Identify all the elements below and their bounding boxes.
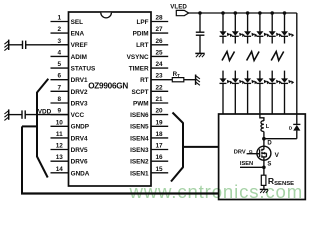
node continuation break mark 3 <box>271 52 284 61</box>
svg-text:ISEN6: ISEN6 <box>130 112 149 119</box>
svg-text:4: 4 <box>58 49 62 56</box>
op-amp-style IC U1 OZ9906GN body <box>69 12 152 186</box>
svg-text:25: 25 <box>155 49 163 56</box>
node continuation break mark 2 <box>247 52 260 61</box>
wire DRV bus left vertical <box>21 126 23 193</box>
pin 11 DRV4 <box>51 131 88 142</box>
wire VREF net to C1 <box>9 44 23 46</box>
node junction LED string 2 tap <box>234 11 238 15</box>
svg-text:23: 23 <box>155 73 163 80</box>
wire LED string 3 mid lower <box>247 71 249 79</box>
transistor V (power MOSFET) <box>249 141 280 168</box>
svg-text:ISEN1: ISEN1 <box>130 170 149 177</box>
wire LED string 5 mid lower <box>271 71 273 79</box>
resistor RT <box>172 71 184 82</box>
svg-text:24: 24 <box>155 61 163 68</box>
wire LED string 5 to block <box>271 83 273 114</box>
LED D3b <box>244 78 257 84</box>
wire LED string 1 mid lower <box>222 71 224 79</box>
LED D1a <box>220 31 233 37</box>
pin 14 GNDA <box>51 166 90 178</box>
wire LED string 4 mid lower <box>259 71 261 79</box>
svg-text:18: 18 <box>155 131 163 138</box>
wire LED string 3 mid upper <box>247 36 249 43</box>
svg-text:VDD: VDD <box>38 108 52 115</box>
pin 9 VCC <box>51 108 85 120</box>
wire LED string 5 mid upper <box>271 36 273 43</box>
LED D6b <box>281 78 294 84</box>
svg-text:DRV6: DRV6 <box>71 159 88 166</box>
resistor RSENSE <box>261 175 294 187</box>
pin 23 RT <box>140 73 168 85</box>
LED D4a <box>256 31 269 37</box>
svg-text:OZ9906GN: OZ9906GN <box>88 82 128 91</box>
svg-text:11: 11 <box>56 131 63 138</box>
wire DRV to gate <box>247 153 260 155</box>
wire ISEN bus entry diagonal top <box>173 113 184 124</box>
wire LED string 4 to block <box>259 83 261 114</box>
svg-text:5: 5 <box>58 61 62 68</box>
svg-text:9: 9 <box>58 108 62 115</box>
svg-text:7: 7 <box>58 84 62 91</box>
svg-text:LRT: LRT <box>136 42 149 49</box>
wire DRV bus entry diagonal top <box>37 79 48 93</box>
wire LED string 2 mid lower <box>234 71 236 79</box>
svg-text:ISEN: ISEN <box>240 161 253 167</box>
node junction LED string 6 tap <box>283 11 287 15</box>
svg-text:16: 16 <box>155 154 163 161</box>
svg-text:VCC: VCC <box>71 112 85 119</box>
svg-text:10: 10 <box>56 119 64 126</box>
pin 22 SCPT <box>132 84 169 96</box>
svg-text:20: 20 <box>155 108 163 115</box>
pin 21 PWM <box>133 96 168 107</box>
LED D2a <box>232 31 245 37</box>
wire C2 to pin 9 VCC <box>25 114 68 116</box>
capacitor C3 <box>196 32 205 35</box>
svg-text:D: D <box>267 141 272 147</box>
pin 15 ISEN1 <box>130 166 168 178</box>
svg-text:28: 28 <box>155 15 163 22</box>
wire LED string 1 mid upper <box>222 36 224 43</box>
pin 17 ISEN3 <box>130 143 168 155</box>
wire LED string 1 to block <box>222 83 224 114</box>
svg-text:21: 21 <box>155 96 163 103</box>
pin 16 ISEN2 <box>130 154 168 165</box>
svg-text:VREF: VREF <box>71 42 88 49</box>
svg-text:27: 27 <box>155 26 163 33</box>
wire ISEN bus exit diagonal bottom <box>171 167 183 181</box>
svg-text:ISEN3: ISEN3 <box>130 147 149 154</box>
svg-text:22: 22 <box>155 84 163 91</box>
svg-text:17: 17 <box>155 143 163 150</box>
pin 5 STATUS <box>51 61 96 72</box>
node junction LED string 4 tap <box>258 11 262 15</box>
ground at C2 <box>4 109 8 120</box>
svg-text:D: D <box>289 126 293 132</box>
pin 28 LPF <box>137 15 169 26</box>
svg-text:ENA: ENA <box>71 31 85 38</box>
wire pin 23 to RT <box>168 79 172 81</box>
LED string 5 upper wire <box>271 13 273 31</box>
capacitor C2 <box>22 110 25 118</box>
wire RSENSE to ground <box>263 185 265 189</box>
wire source to RSENSE <box>263 160 265 175</box>
pin 8 DRV3 <box>51 96 88 107</box>
svg-text:RT: RT <box>173 71 180 78</box>
wire DRV bus bottom run to block <box>21 192 219 194</box>
pin 7 DRV2 <box>51 84 88 96</box>
pin 10 GNDP <box>51 119 90 130</box>
svg-text:26: 26 <box>155 38 163 45</box>
svg-text:LPF: LPF <box>137 19 149 26</box>
LED D5a <box>269 31 282 37</box>
LED string 3 upper wire <box>247 13 249 31</box>
svg-text:DRV: DRV <box>234 150 246 156</box>
inductor L <box>261 121 270 132</box>
pin 13 DRV6 <box>51 154 88 165</box>
node junction LED string 1 tap <box>221 11 225 15</box>
pin 3 VREF <box>51 38 88 49</box>
pin 6 DRV1 <box>51 73 88 85</box>
svg-text:RT: RT <box>140 77 149 84</box>
wire ISEN bus to block <box>183 146 219 148</box>
wire L to switch node <box>263 132 265 147</box>
wire C3 to ground <box>199 35 201 53</box>
svg-text:6: 6 <box>58 73 62 80</box>
ground at C3 <box>195 53 204 57</box>
pin 25 VSYNC <box>127 49 169 61</box>
svg-text:DRV1: DRV1 <box>71 77 88 84</box>
svg-text:VLED: VLED <box>170 3 187 10</box>
svg-text:ISEN5: ISEN5 <box>130 124 149 131</box>
pin 27 PDIM <box>133 26 169 37</box>
svg-text:ISEN2: ISEN2 <box>130 159 149 166</box>
pin 19 ISEN5 <box>130 119 168 130</box>
LED string 6 upper wire <box>284 13 286 31</box>
wire LED string 2 mid upper <box>234 36 236 43</box>
svg-text:14: 14 <box>56 166 64 173</box>
wire LED string 4 mid upper <box>259 36 261 43</box>
wire DRV bus vertical <box>36 92 38 157</box>
wire VLED rail drop to diode D <box>296 13 298 124</box>
capacitor C1 <box>23 41 26 49</box>
pin 26 LRT <box>136 38 168 49</box>
wire RT to ground <box>184 79 196 81</box>
ground at RSENSE <box>260 189 268 193</box>
wire C1 to pin 3 <box>26 44 69 46</box>
LED D2b <box>232 78 245 84</box>
pin 1 SEL <box>51 15 84 26</box>
svg-text:L: L <box>266 124 270 130</box>
node junction LED string 3 tap <box>246 11 250 15</box>
svg-text:V: V <box>275 152 280 159</box>
svg-text:DRV2: DRV2 <box>71 89 88 96</box>
svg-text:TIMER: TIMER <box>129 66 149 73</box>
wire ISEN bus vertical <box>182 123 184 168</box>
LED D1b <box>220 78 233 84</box>
LED string 2 upper wire <box>234 13 236 31</box>
wire LED string 2 to block <box>234 83 236 114</box>
svg-text:STATUS: STATUS <box>71 66 96 73</box>
LED string 4 upper wire <box>259 13 261 31</box>
LED D4b <box>256 78 269 84</box>
svg-text:ADIM: ADIM <box>71 54 87 61</box>
svg-text:12: 12 <box>56 143 64 150</box>
svg-text:PDIM: PDIM <box>133 31 149 38</box>
node source junction <box>262 166 266 170</box>
svg-text:2: 2 <box>58 26 62 33</box>
svg-text:SCPT: SCPT <box>132 89 149 96</box>
wire LED string 6 mid upper <box>284 36 286 43</box>
pin 12 DRV5 <box>51 143 88 155</box>
svg-text:VSYNC: VSYNC <box>127 54 149 61</box>
pin 20 ISEN6 <box>130 108 168 120</box>
LED D5b <box>269 78 282 84</box>
svg-text:DRV3: DRV3 <box>71 100 88 107</box>
svg-text:PWM: PWM <box>133 100 149 107</box>
node junction LED string 5 tap <box>270 11 274 15</box>
svg-text:15: 15 <box>155 166 163 173</box>
svg-text:3: 3 <box>58 38 62 45</box>
svg-text:ISEN4: ISEN4 <box>130 135 149 142</box>
svg-text:13: 13 <box>56 154 64 161</box>
pin 2 ENA <box>51 26 85 37</box>
svg-text:SEL: SEL <box>71 19 84 26</box>
svg-text:DRV4: DRV4 <box>71 135 88 142</box>
node junction C3 tap <box>198 11 202 15</box>
svg-text:19: 19 <box>155 119 163 126</box>
diode D <box>289 124 301 138</box>
svg-text:DRV5: DRV5 <box>71 147 88 154</box>
wire string4 into block jog <box>260 114 264 121</box>
svg-text:S: S <box>267 162 271 168</box>
wire VDD net to C2 <box>9 114 22 116</box>
pin 18 ISEN4 <box>130 131 168 142</box>
LED D3a <box>244 31 257 37</box>
wire DRV bus exit diagonal bottom <box>37 157 48 178</box>
wire LED string 3 to block <box>247 83 249 114</box>
wire VLED rail <box>189 12 297 14</box>
wire LED string 6 mid lower <box>284 71 286 79</box>
svg-text:8: 8 <box>58 96 62 103</box>
svg-text:1: 1 <box>58 15 62 22</box>
pin 4 ADIM <box>51 49 87 61</box>
wire switch node to diode D <box>264 138 297 140</box>
ground at RT <box>196 75 200 86</box>
node switch junction <box>262 137 266 141</box>
LED D6a <box>281 31 294 37</box>
wire ISEN to source node <box>240 166 264 168</box>
svg-text:GNDA: GNDA <box>71 170 90 177</box>
svg-text:GNDP: GNDP <box>71 124 90 131</box>
wire DRV bus branch horizontal <box>22 125 37 127</box>
wire LED string 6 to block <box>284 83 286 114</box>
node continuation break mark 1 <box>222 52 235 61</box>
block channel detail box <box>219 114 306 200</box>
ground at C1 <box>4 40 8 51</box>
node VLED connector flag <box>176 10 188 15</box>
LED string 1 upper wire <box>222 13 224 31</box>
wire rail to C3 <box>199 13 201 32</box>
pin 24 TIMER <box>129 61 168 72</box>
